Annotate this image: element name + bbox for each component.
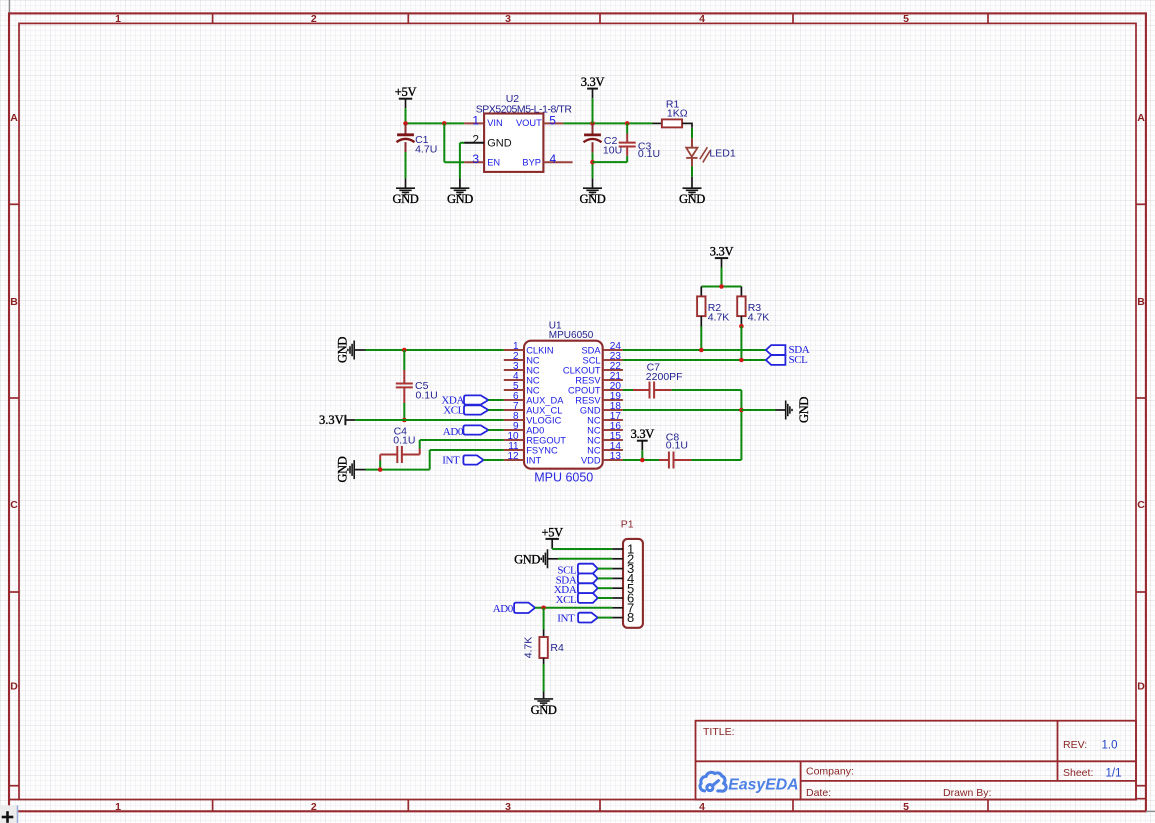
svg-text:NC: NC	[587, 425, 601, 435]
capacitor C2 lead	[592, 123, 594, 134]
P1 pin 8	[612, 617, 623, 619]
svg-text:GND: GND	[335, 337, 349, 363]
power flag 3.3V at VDD	[637, 440, 648, 442]
svg-text:1KΩ: 1KΩ	[667, 108, 688, 120]
wire +5V stem	[405, 108, 407, 123]
svg-text:MPU 6050: MPU 6050	[534, 471, 593, 485]
wire SCL net	[623, 359, 766, 361]
svg-text:8: 8	[627, 610, 634, 625]
svg-text:2200PF: 2200PF	[646, 371, 683, 383]
EasyEDA logo cloud	[700, 772, 726, 791]
junction C2/C3 net	[590, 160, 595, 165]
junction VDD	[640, 458, 645, 463]
svg-text:C: C	[1137, 499, 1145, 511]
U1 pin 7 AUX_CL	[504, 409, 524, 411]
svg-text:SPX5205M5-L-1-8/TR: SPX5205M5-L-1-8/TR	[476, 103, 573, 115]
capacitor C8 left lead	[659, 459, 669, 461]
wire C1 to GND	[405, 142, 407, 152]
svg-text:4: 4	[550, 152, 557, 166]
resistor R1	[662, 119, 682, 127]
svg-text:AD0: AD0	[493, 603, 514, 615]
svg-text:NC: NC	[587, 415, 601, 425]
svg-text:D: D	[10, 681, 18, 693]
wire VOUT rail	[563, 122, 652, 124]
U1 pin 13 VDD	[603, 459, 623, 461]
frame column tick	[987, 13, 989, 23]
U1 pin 3 NC	[504, 369, 524, 371]
svg-text:A: A	[10, 112, 18, 124]
svg-text:SCL: SCL	[789, 354, 809, 366]
U1 pin 19 RESV	[603, 399, 623, 401]
wire C5 top	[403, 350, 405, 370]
svg-text:NC: NC	[526, 355, 540, 365]
svg-text:EN: EN	[487, 157, 500, 167]
frame corner connector bottom-right	[1136, 798, 1146, 800]
wire LED1 to GND	[691, 158, 693, 166]
U2 pin 4 BYP	[543, 161, 572, 163]
U1 pin 9 AD0	[504, 429, 524, 431]
svg-text:2: 2	[311, 13, 317, 25]
svg-text:2: 2	[311, 801, 317, 813]
junction at C3	[625, 121, 630, 126]
P1 pin 5	[612, 587, 623, 589]
frame row tick	[9, 203, 19, 205]
wire XDA to P1	[598, 587, 613, 589]
sheet edge	[8, 0, 10, 13]
wire right bus vertical	[740, 390, 742, 460]
svg-text:GND: GND	[514, 552, 540, 566]
frame column tick	[212, 13, 214, 23]
svg-text:P1: P1	[621, 519, 634, 531]
svg-text:1/1: 1/1	[1106, 768, 1122, 780]
svg-text:INT: INT	[526, 455, 541, 465]
frame row tick	[9, 785, 19, 787]
wire GND to P1 pin2	[548, 558, 559, 560]
junction at EN branch	[442, 121, 447, 126]
svg-text:AD0: AD0	[526, 425, 544, 435]
svg-text:13: 13	[610, 451, 622, 462]
svg-text:REGOUT: REGOUT	[526, 435, 566, 445]
svg-text:RESV: RESV	[575, 375, 601, 385]
wire 3.3V to R2/R3	[721, 267, 723, 286]
op-amp U2 SPX5205M5 body	[484, 114, 543, 172]
capacitor C4 right lead	[402, 454, 420, 456]
svg-text:INT: INT	[557, 613, 575, 625]
junction at C4 bottom	[378, 467, 383, 472]
wire REGOUT	[420, 439, 504, 441]
svg-text:+5V: +5V	[395, 85, 417, 99]
svg-text:D: D	[1137, 681, 1145, 693]
U1 pin 12 INT	[504, 459, 524, 461]
ground flag right	[785, 401, 787, 420]
U1 pin 4 NC	[504, 379, 524, 381]
svg-text:REV:: REV:	[1063, 739, 1087, 751]
junction at C5 bottom	[402, 418, 407, 423]
wire VDD	[623, 459, 659, 461]
svg-text:5: 5	[903, 801, 909, 813]
power flag +5V bottom	[546, 538, 559, 540]
svg-text:Drawn By:: Drawn By:	[943, 787, 991, 799]
title block REV divider	[1057, 721, 1059, 781]
svg-text:Date:: Date:	[806, 787, 831, 799]
ground under C1	[396, 187, 415, 189]
capacitor C8	[668, 452, 670, 469]
svg-text:VLOGIC: VLOGIC	[526, 415, 561, 425]
svg-text:1: 1	[472, 113, 479, 127]
junction at C1/+5V	[403, 121, 408, 126]
resistor R2	[700, 287, 702, 297]
ground under LED1	[683, 187, 702, 189]
capacitor C5	[396, 382, 413, 384]
wire C2 bottom	[592, 142, 594, 152]
wire XCL to P1	[598, 597, 613, 599]
frame row tick	[9, 397, 19, 399]
U1 pin 10 REGOUT	[504, 439, 524, 441]
svg-text:0.1U: 0.1U	[666, 439, 688, 451]
svg-text:CLKOUT: CLKOUT	[563, 365, 601, 375]
IC U1 MPU6050 body	[524, 341, 603, 469]
wire SDA to P1	[598, 577, 613, 579]
U1 pin 1 CLKIN	[504, 349, 524, 351]
power flag 3.3V over R2/R3	[715, 257, 728, 259]
svg-text:TITLE:: TITLE:	[703, 726, 735, 738]
svg-text:1: 1	[115, 13, 121, 25]
wire XCL	[488, 409, 504, 411]
U1 pin 21 RESV	[603, 379, 623, 381]
svg-text:INT: INT	[442, 455, 460, 467]
wire INT	[484, 459, 504, 461]
svg-text:3: 3	[505, 801, 511, 813]
wire XDA	[488, 399, 504, 401]
wire R2 bottom	[700, 316, 702, 326]
wire R4 to GND	[543, 658, 545, 664]
wire FSYNC	[429, 450, 431, 470]
junction at C2	[590, 121, 595, 126]
svg-text:NC: NC	[526, 365, 540, 375]
junction GND bus	[739, 408, 744, 413]
svg-text:MPU6050: MPU6050	[549, 330, 594, 341]
svg-text:SDA: SDA	[581, 345, 601, 355]
svg-text:3: 3	[505, 13, 511, 25]
U1 pin 16 NC	[603, 429, 623, 431]
svg-text:2: 2	[472, 133, 479, 147]
junction 3.3V split	[719, 284, 724, 289]
junction SDA/R2	[699, 348, 704, 353]
svg-text:NC: NC	[526, 385, 540, 395]
svg-text:+5V: +5V	[541, 525, 563, 539]
svg-text:3.3V: 3.3V	[581, 75, 605, 89]
svg-text:XCL: XCL	[443, 405, 464, 417]
P1 pin 7	[612, 607, 623, 609]
svg-text:AUX_DA: AUX_DA	[526, 395, 564, 405]
svg-text:VOUT: VOUT	[516, 118, 542, 128]
svg-text:C: C	[10, 499, 18, 511]
U1 pin 23 SCL	[603, 359, 623, 361]
svg-text:4: 4	[699, 801, 705, 813]
wire EN branch vertical	[443, 123, 445, 162]
wire C3 to C2	[593, 161, 628, 163]
wire +5V rail	[405, 122, 465, 124]
svg-text:SCL: SCL	[583, 355, 601, 365]
P1 pin 3	[612, 568, 623, 570]
svg-text:CLKIN: CLKIN	[526, 345, 553, 355]
svg-text:3: 3	[472, 152, 479, 166]
svg-text:NC: NC	[587, 445, 601, 455]
connector P1 body	[623, 539, 643, 628]
junction R3 lead	[739, 324, 744, 329]
svg-text:XCL: XCL	[556, 594, 577, 606]
wire GND bottom left	[354, 469, 365, 471]
svg-text:AUX_CL: AUX_CL	[526, 405, 562, 415]
svg-text:GND: GND	[531, 703, 557, 717]
capacitor C1 lead top	[405, 123, 407, 134]
port flag SCL	[766, 355, 786, 365]
svg-text:VIN: VIN	[487, 118, 503, 128]
U1 pin 15 NC	[603, 439, 623, 441]
wire U2 GND pin	[460, 142, 464, 144]
P1 pin 6	[612, 597, 623, 599]
svg-text:4: 4	[699, 13, 705, 25]
U1 pin 22 CLKOUT	[603, 369, 623, 371]
wire INT to P1 pin8	[598, 617, 613, 619]
svg-text:VDD: VDD	[581, 455, 601, 465]
capacitor C4	[396, 446, 398, 463]
svg-text:0.1U: 0.1U	[416, 390, 438, 402]
svg-text:4.7U: 4.7U	[415, 144, 437, 156]
svg-text:R4: R4	[550, 642, 564, 654]
ground under C2	[583, 187, 602, 189]
wire SCL to P1	[598, 568, 613, 570]
svg-text:Sheet:: Sheet:	[1063, 767, 1093, 779]
svg-text:0.1U: 0.1U	[393, 435, 415, 447]
U2 pin 2 GND	[464, 142, 484, 144]
svg-text:Company:: Company:	[806, 766, 854, 778]
resistor R4	[539, 637, 547, 658]
svg-text:5: 5	[903, 13, 909, 25]
wire GND pin18	[623, 409, 742, 411]
svg-text:A: A	[1137, 112, 1145, 124]
capacitor C8 right lead	[673, 459, 691, 461]
wire +5V to P1 pin1	[551, 547, 553, 550]
frame column tick	[599, 13, 601, 23]
ground flag left of U1	[353, 341, 355, 360]
svg-text:GND: GND	[447, 192, 473, 206]
ground flag bottom left	[353, 460, 355, 479]
svg-text:4.7K: 4.7K	[708, 311, 730, 323]
wire CPOUT to C7	[623, 389, 633, 391]
wire AD0 to R4	[543, 608, 545, 630]
svg-text:3.3V: 3.3V	[710, 245, 734, 259]
ground under U2	[450, 187, 469, 189]
LED LED1	[686, 148, 697, 157]
U2 pin 3 EN	[464, 161, 484, 163]
capacitor C3	[619, 142, 636, 144]
svg-text:GND: GND	[393, 192, 419, 206]
U2 pin 5 VOUT	[543, 122, 563, 124]
ground flag at P1 pin2	[547, 549, 549, 568]
wire GND to CLKIN	[354, 349, 365, 351]
svg-text:CPOUT: CPOUT	[568, 385, 601, 395]
capacitor C7	[649, 382, 651, 399]
power flag 3.3V	[587, 88, 598, 90]
svg-text:12: 12	[507, 451, 519, 462]
wire C5 bottom	[403, 387, 405, 403]
svg-text:B: B	[10, 296, 18, 308]
svg-text:5: 5	[549, 113, 556, 127]
U1 pin 2 NC	[504, 359, 524, 361]
svg-text:EasyEDA: EasyEDA	[728, 777, 798, 794]
canvas origin marker	[0, 805, 18, 823]
U1 pin 17 NC	[603, 419, 623, 421]
U1 pin 8 VLOGIC	[504, 419, 524, 421]
junction at C5 top	[402, 348, 407, 353]
U1 pin 14 NC	[603, 449, 623, 451]
svg-text:1: 1	[115, 801, 121, 813]
wire EN branch horizontal	[444, 161, 464, 163]
svg-text:GND: GND	[797, 397, 811, 423]
wire 3.3V to VLOGIC	[345, 419, 355, 421]
svg-text:GND: GND	[335, 456, 349, 482]
svg-text:RESV: RESV	[575, 395, 601, 405]
capacitor C1	[397, 133, 414, 136]
wire R1 to LED1	[682, 122, 692, 124]
port flag SDA	[766, 345, 786, 355]
svg-text:4.7K: 4.7K	[748, 311, 770, 323]
capacitor C4 left lead	[380, 454, 397, 456]
svg-text:0.1U: 0.1U	[638, 148, 660, 160]
wire SDA net	[623, 349, 766, 351]
svg-text:1.0: 1.0	[1102, 739, 1118, 751]
wire R3 bottom	[740, 316, 742, 326]
capacitor C2	[584, 133, 601, 136]
wire AD0 to P1 pin7	[535, 607, 612, 609]
wire to R1	[653, 122, 662, 124]
power flag 3.3V (bar) at VLOGIC	[344, 415, 346, 425]
svg-text:AD0: AD0	[443, 426, 464, 438]
wire C3 top lead	[626, 123, 628, 133]
resistor R3	[740, 287, 742, 297]
svg-text:LED1: LED1	[709, 147, 735, 159]
junction SCL/R3	[739, 358, 744, 363]
U2 pin 1 VIN	[464, 122, 484, 124]
wire C7 right	[654, 389, 672, 391]
svg-text:GND: GND	[487, 138, 512, 150]
svg-text:NC: NC	[587, 435, 601, 445]
junction AD0/R4	[541, 606, 546, 611]
frame column tick	[407, 13, 409, 23]
U1 pin 11 FSYNC	[504, 449, 524, 451]
title block mid divider	[696, 760, 1137, 762]
LED1 arrows	[700, 147, 708, 159]
title block date divider	[801, 780, 1136, 782]
svg-text:BYP: BYP	[522, 157, 541, 167]
R4 labels	[522, 637, 534, 659]
ground under R4	[534, 698, 553, 700]
svg-text:3.3V: 3.3V	[319, 413, 344, 427]
wire 3.3V to VDD	[641, 450, 643, 460]
title block outline	[696, 721, 1137, 800]
svg-text:NC: NC	[526, 375, 540, 385]
wire C3 bottom lead	[626, 147, 628, 156]
P1 pin 2	[612, 558, 623, 560]
frame corner connector bottom-left	[9, 799, 19, 801]
power flag +5V	[399, 98, 412, 100]
frame row tick	[9, 591, 19, 593]
frame column tick	[792, 13, 794, 23]
title block logo divider	[800, 761, 802, 799]
U1 pin 6 AUX_DA	[504, 399, 524, 401]
P1 pin 4	[612, 577, 623, 579]
svg-text:B: B	[1137, 296, 1145, 308]
svg-text:4.7K: 4.7K	[522, 637, 534, 659]
wire 3.3V stem	[592, 98, 594, 123]
svg-text:GND: GND	[580, 405, 601, 415]
sheet edge bottom right	[1146, 810, 1155, 812]
svg-text:GND: GND	[679, 192, 705, 206]
wire AD0	[488, 429, 504, 431]
svg-text:3.3V: 3.3V	[631, 427, 655, 441]
P1 pin 1	[612, 548, 623, 550]
U1 pin 20 CPOUT	[603, 389, 623, 391]
U1 pin 5 NC	[504, 389, 524, 391]
svg-text:GND: GND	[580, 192, 606, 206]
svg-text:FSYNC: FSYNC	[526, 445, 558, 455]
U1 pin 18 GND	[603, 409, 623, 411]
U1 pin 24 SDA	[603, 349, 623, 351]
